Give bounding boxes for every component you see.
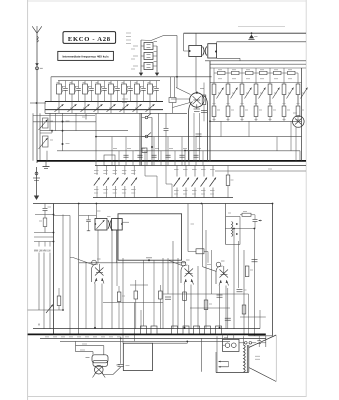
junction [53,241,55,243]
junction [62,309,64,311]
mains unit left wire [201,338,203,371]
svg-text:M: M [38,324,40,327]
output transformer T1 [92,355,108,363]
unit bottom rail [216,372,249,374]
cathode resistor R18 [254,106,258,117]
junction [233,228,235,230]
wire 228.5 [225,228,255,230]
wire bend left [144,151,146,176]
junction [176,76,178,78]
junction [272,203,274,205]
IF block rail 68 [210,67,306,69]
bypass capacitor C40 [217,88,224,99]
L wire to V1 [184,151,186,166]
AVC rail [33,203,273,205]
trimmer capacitor CT6 [123,102,125,114]
wire 214 [35,214,54,216]
resistor R41 [117,292,121,302]
wire [132,151,134,166]
label row [113,147,117,149]
wire [227,288,229,329]
RF coil L3 [84,81,86,84]
oscillator coil box [225,204,227,245]
wire [122,258,124,343]
wire aerial cluster to mid rail [40,132,52,134]
junction [36,102,38,104]
padding capacitor C3 [91,81,93,88]
V1 electrodes [193,96,201,104]
resistor R44 [134,291,138,299]
cathode resistor R16 [226,106,230,117]
wire speaker to cap [103,374,113,376]
wire [153,260,155,326]
oscillator trimmer C5 [144,43,153,50]
tap wires down [38,253,40,311]
wire [167,137,169,166]
wire [172,241,174,329]
resistor R30 [43,218,47,227]
grid link wire [202,267,217,272]
junction [96,203,98,205]
wire [134,303,136,342]
switch contact S2-1 [96,166,98,176]
capacitor C53 [183,326,189,334]
screen rail 165.5 [95,165,306,167]
capacitor C36 [254,215,256,219]
bottom rail 337.8 [60,340,230,342]
tuner block second rail [58,80,160,82]
junction [201,203,203,205]
aerial coil cluster [32,113,34,161]
oscillator trimmer C6 [144,53,153,60]
V1 grid leads [176,88,191,95]
junction [111,229,113,231]
tuner block lower rail [45,109,163,111]
wire [177,258,179,329]
junction [219,327,221,329]
grid resistor R13 [283,73,285,84]
resistor R45 [159,291,163,299]
IFT2 feed wires [95,204,97,219]
grid rail 262.8 [79,262,186,264]
junction [120,338,122,340]
RF coil L5 [110,81,112,84]
switch contact S2-2 [105,166,107,176]
wire [153,137,155,166]
valve V4 [181,261,186,266]
padding capacitor C5 [117,81,119,88]
capacitor C49 [225,317,231,319]
wire [139,137,141,166]
resistor R46 under V4 [183,292,187,301]
capacitor C31 [44,204,46,209]
RF coil L8 [149,81,151,84]
resistor R43 [245,266,249,277]
terminal label [101,336,105,338]
padding capacitor C2 [78,81,80,88]
capacitor C55 [205,326,211,334]
wire [125,137,127,166]
wire [140,310,142,329]
tuner block AVC rail [45,101,163,103]
trimmer capacitor CT3 [84,102,86,114]
resistor R39 [240,214,242,216]
aerial coil L13 [43,136,49,147]
junction [151,160,153,162]
capacitor C48 under V5 [217,294,223,296]
V1 inner capacitor [196,133,202,135]
grid resistor R8 [213,73,215,84]
trimmer capacitor CT7 [136,102,138,114]
antenna [36,33,38,163]
rail 333.8 right [249,335,273,337]
padding capacitor C1 [65,81,67,88]
anode resistor R2 [227,68,229,73]
wire antenna to tuner [30,102,46,104]
bypass capacitor C44 [273,88,280,99]
speaker field coil [95,365,104,374]
grid resistor R9 [227,73,229,84]
capacitor C54 [194,326,200,334]
IFT1 secondary can [208,44,217,58]
coupling capacitor C12 [170,77,172,98]
wire [253,229,255,336]
padder switch contacts [141,113,143,165]
wire [233,229,235,329]
wire [146,151,148,166]
aerial coil L12 [43,118,49,128]
RF coil L1 [58,81,60,84]
IF block rail 121 [210,120,302,122]
junction [62,130,64,132]
bottom heater bus [28,333,266,335]
switch cluster ground arrows [140,71,142,75]
switch contact S2-10 [212,166,214,177]
mid rail 130.7 [40,130,128,132]
switch contact S2-6 [176,166,178,177]
resistor R33 [58,215,60,297]
wire 302.5 [103,302,163,304]
wire x70 [69,216,71,335]
wire 285 [130,284,148,286]
wire 308 [190,307,230,309]
anode resistor R3 [241,68,243,73]
output transformer winding [244,345,246,372]
capacitor C46 [165,296,171,298]
terminal label [69,336,73,338]
junction [251,32,253,34]
IF block mid rail 82.5 [210,82,302,84]
junction [95,136,97,138]
terminal label [93,336,97,338]
title box EKCO - A28 [63,32,116,44]
junction [209,120,211,122]
resistor R40 [188,251,196,253]
svg-text:Intermediate frequency 465 kc/: Intermediate frequency 465 kc/s [62,55,109,59]
wire [118,151,120,166]
wire [248,294,250,336]
anode resistor R4 [255,68,257,73]
bypass capacitor C43 [259,88,266,99]
svg-text:MW LW MW LW: MW LW MW LW [34,251,51,253]
V1 inner leads [193,113,195,161]
padding capacitor C6 [130,81,132,88]
junction [95,160,97,162]
valve V3 [92,260,97,265]
padder trimmer box [142,148,147,153]
AVC note [122,98,128,100]
trimmer capacitor CT5 [110,102,112,114]
wire [188,151,190,166]
wire 115.5 [33,115,95,117]
pickup box [123,343,152,370]
wire x76 [75,113,77,130]
smoothing capacitor C30 [249,35,254,39]
page left edge [27,0,29,400]
wire [143,260,145,326]
capacitor C50 [141,326,147,334]
IFT1 grid cap wire [195,33,197,45]
bypass capacitor C41 [231,88,238,99]
capacitor C45 [252,259,258,261]
right boundary wire [272,204,274,336]
terminal label [109,336,113,338]
dial assembly box [118,214,182,260]
junction [209,160,211,162]
capacitor C8 [85,114,87,120]
wire [202,151,204,166]
row labels [218,78,222,80]
AVC rail 171 [215,170,306,172]
bank bottom rail [93,197,233,199]
wire 294 [163,293,249,295]
trimmer capacitor CT1 [58,102,60,114]
valve V1 bulb [190,93,204,107]
grid feed wire C34 [187,204,189,252]
capacitor C52 [172,326,178,334]
capacitor C51 [151,326,157,334]
page right edge [305,0,307,397]
cathode resistor R15 [212,106,216,117]
switch label frame [104,155,115,166]
valve V2 bulb [293,116,305,128]
padding capacitor C7 [143,81,145,88]
wire [197,266,199,329]
terminal label [117,336,121,338]
terminal label [45,336,49,338]
trimmer capacitor CT8 [149,102,151,114]
page bottom edge [28,396,307,398]
tap hook [49,242,51,247]
junction [254,228,256,230]
terminal label [53,336,57,338]
rectifier valve V7 [223,339,240,351]
rail 42.5 [217,41,306,43]
padding capacitor C4 [104,81,106,88]
wire 317 [240,316,266,318]
capacitor C44 [237,289,243,291]
grid resistor R11 [255,73,257,84]
terminal label [85,336,89,338]
bypass capacitor C45 [287,88,294,99]
coupling capacitors row [123,154,128,156]
bypass capacitor C46 [301,88,308,99]
bottom rail lower [40,337,266,339]
wire [202,204,204,267]
band switch S1 cluster [140,40,142,71]
series capacitor C9 [165,113,167,128]
coil taps [34,232,54,234]
terminal label [77,336,81,338]
antenna plug node [35,63,39,66]
junction [53,232,55,234]
fuse link [239,342,244,344]
main left bus [53,204,55,335]
mid rail 151 [57,150,300,152]
resistor R42 [204,300,208,310]
junction [51,130,53,132]
RF coil L4 [97,81,99,84]
mid rail 136.6 [96,136,302,138]
switch contact S2-5 [133,166,135,176]
junction [186,341,188,343]
mid rail 121.8 [33,121,96,123]
HT top rail [184,32,306,34]
bypass capacitor to chassis [45,161,47,166]
wire [238,241,240,288]
junction [184,160,186,162]
wire [195,137,197,166]
wire x158.5 [158,113,160,161]
tuner block bottom rail [45,112,187,114]
wire [111,137,113,166]
RF coil L7 [136,81,138,84]
unit inner left wire [216,336,218,372]
cathode resistor R17 [240,106,244,117]
junction [94,327,96,329]
capacitor C56 [216,326,222,334]
coil winding [232,222,233,237]
mains capacitor [257,340,261,342]
anode resistor R1 [213,68,215,73]
wire x140 [139,113,141,165]
HT bus [37,160,306,162]
ground arrow under antenna line [36,167,38,196]
wire box to mains unit [153,342,188,344]
wire [160,151,162,166]
wire [205,230,207,329]
IFT2 primary can [95,219,107,231]
stage coupling wires [220,121,222,136]
IFT1 primary can [183,33,185,51]
junction [184,327,186,329]
valve V5 [216,262,221,267]
terminal label [61,336,65,338]
loudspeaker cone [249,335,276,348]
terminal label [125,336,129,338]
left feed wire [78,204,80,335]
unit right wire [265,336,267,347]
wire [243,250,245,336]
wire step 2 [75,346,77,352]
switch contact S2-9 [203,166,205,177]
RF coil L6 [123,81,125,84]
wire [181,137,183,166]
cathode resistor R21 [296,106,300,117]
wires can to IF block [216,42,218,44]
grid capacitor C33 [88,215,90,219]
wire [211,250,213,294]
IFT1 coupling [203,47,207,56]
wire to V1 anode [176,36,178,89]
wire to oscillator [151,36,164,41]
HT top rail faint [238,26,285,28]
wire bend right [165,166,167,185]
resistor R47 [242,305,246,314]
switch contact S2-8 [194,166,196,177]
wire [174,151,176,166]
capacitor C21 [201,110,207,112]
capacitor C47 [120,338,122,363]
switch contact S2-4 [124,166,126,176]
AVC feed components [55,113,57,130]
cathode resistor R19 [268,106,272,117]
tap hook [38,242,40,247]
IF frequency label box [58,51,114,60]
junction [53,214,55,216]
RF coil L2 [71,81,73,84]
wire [259,310,261,329]
volume control wiper [46,305,53,314]
wire x86 [85,263,87,329]
anode resistor R6 [283,68,285,73]
grid resistor R10 [241,73,243,84]
valve V1 envelope [189,102,193,161]
bypass capacitor C42 [245,88,252,99]
IF block rail 60.8 [205,60,306,62]
antenna series coil [37,36,38,42]
wire 310 [28,309,63,311]
trimmer capacitor CT4 [97,102,99,114]
wire x117 [116,230,118,286]
IFT2 coupling [108,220,111,229]
heater drop wires [222,334,224,339]
oscillator trimmer C7 [144,63,153,70]
IFT2 secondary can [112,219,123,231]
IF block left bus [209,61,211,161]
parts list note [126,32,131,34]
switch contact S2-7 [185,166,187,177]
wire step R52 [75,341,77,345]
padding capacitor C8 [156,81,158,88]
grid leak resistor R26 [227,166,229,176]
wire 241 [173,240,182,242]
junction [78,203,80,205]
anode resistor R5 [269,68,271,73]
bottom rail upper [33,328,260,330]
tuner block top rail [51,76,212,78]
tap hook [44,242,46,247]
decoupling resistor R20 [203,83,205,96]
wire [162,258,164,329]
cathode resistor R20 [282,106,286,117]
grid resistor R14 [297,73,299,84]
grid resistor R12 [269,73,271,84]
trimmer capacitor CT2 [71,102,73,114]
IF block right bus [301,68,303,161]
junction wire x47 [46,151,48,161]
mains input arrows [219,361,229,363]
